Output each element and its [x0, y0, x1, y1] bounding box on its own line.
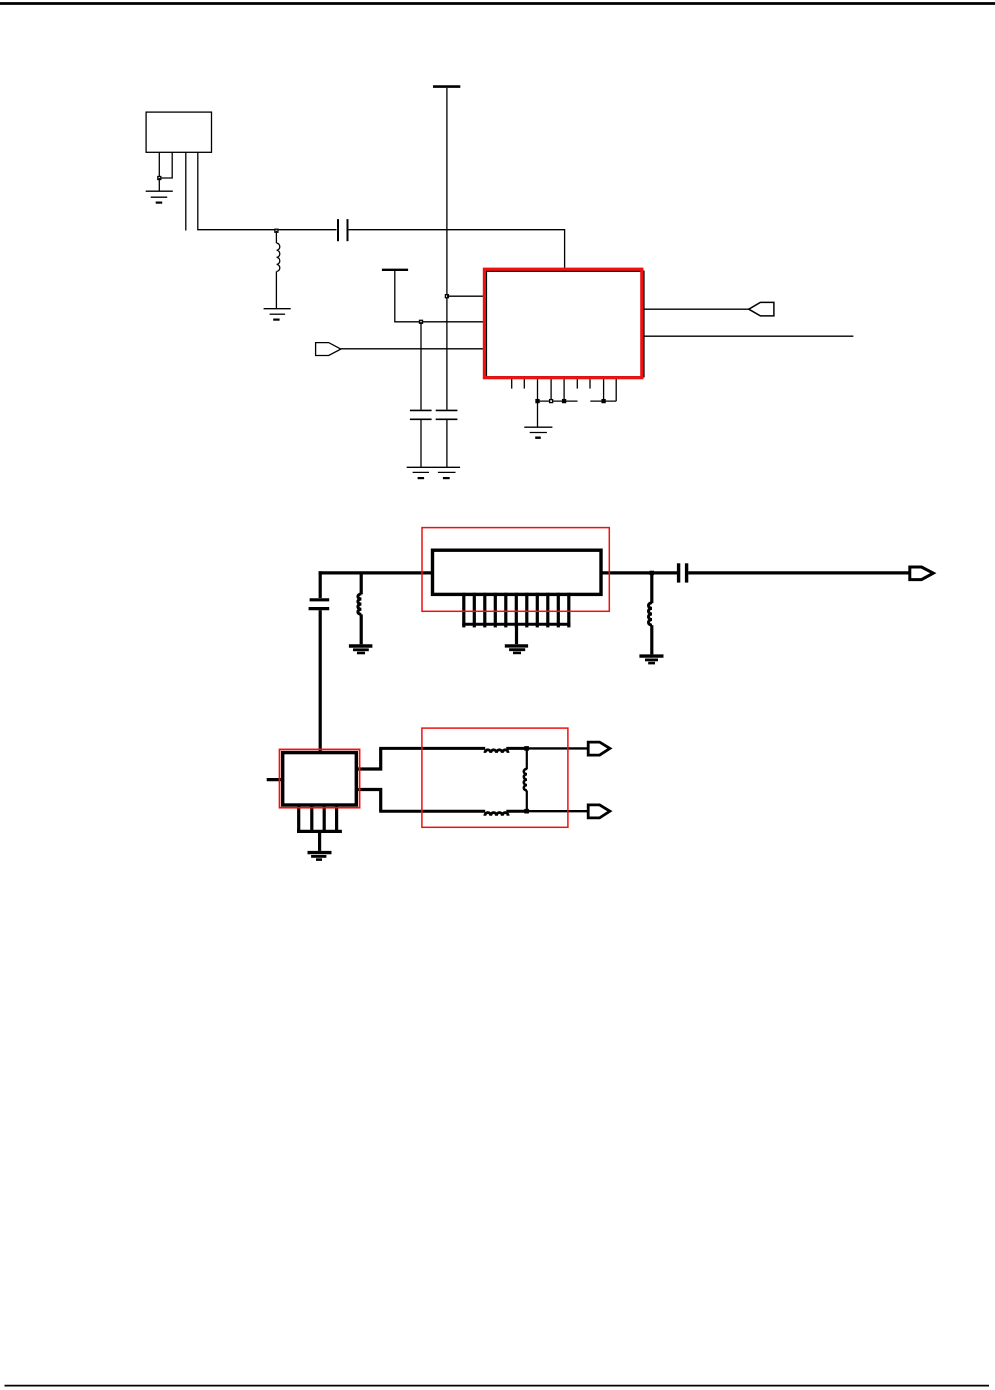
wire ground stem U1	[537, 401, 539, 427]
comb: filter FL1 bottom pins	[462, 593, 570, 653]
node T2 net / C2 junction	[420, 320, 423, 323]
wire U1 bottom pin 6	[576, 376, 578, 389]
inductor L1	[276, 231, 279, 309]
wire balun bottom pin 1	[297, 805, 300, 831]
wire U1 bottom pin 4	[550, 376, 552, 401]
wire balun bottom pin 4	[335, 805, 338, 831]
wire junction down to C2	[420, 322, 422, 410]
wire balun right pin lower	[356, 790, 380, 812]
inductor L2	[358, 573, 361, 644]
wire U1 right pin to P2	[644, 308, 749, 310]
wire pin4 of J1 to main net	[198, 152, 337, 229]
inductor L5 (inline, lower)	[485, 813, 508, 816]
wire lower diff line	[379, 810, 485, 813]
ground G3	[413, 472, 429, 478]
wire upper diff line	[379, 747, 485, 750]
IC U1 body	[486, 271, 644, 377]
wire P1 to U1 left pin 3	[341, 348, 486, 350]
footer rule	[5, 1385, 990, 1387]
wire ground bus right segment	[590, 400, 616, 402]
inductor L6 (shunt between lines)	[524, 748, 527, 811]
annotation box (red) around balun T1	[280, 749, 360, 807]
wire U1 bottom pin 1	[511, 376, 513, 389]
power rail T2	[382, 269, 408, 271]
wire U1 bottom pin 9	[615, 376, 617, 401]
wire U1 bottom pin 3	[537, 376, 539, 401]
top page border rule	[0, 2, 995, 5]
capacitor C4 (series in vertical branch)	[309, 600, 330, 609]
node junction at L3	[650, 571, 654, 575]
wire balun bottom pin 3	[323, 805, 326, 831]
wire C1 right plate to U1 top pin	[349, 230, 565, 272]
port P5	[588, 805, 610, 818]
connector J1 (top-left box)	[146, 112, 211, 152]
wire pin2 of J1	[159, 152, 172, 178]
inductor L3	[649, 573, 653, 655]
wire corner down from main net	[319, 571, 322, 598]
wire U1 bottom pin 8	[603, 376, 605, 401]
wire U1 bottom pin 7	[589, 376, 591, 389]
wire stub left of balun	[267, 778, 283, 781]
wire FL1 ground bus	[462, 623, 570, 626]
annotation box (red) around FL1	[422, 528, 609, 612]
wire ground stem	[158, 178, 160, 191]
node T1 net / U1 pin junction	[445, 295, 448, 298]
inductor L4 (inline, upper)	[485, 750, 508, 753]
capacitor C5 (series)	[679, 563, 687, 582]
ground G9	[308, 853, 332, 860]
node bus junction pin4 (open)	[550, 400, 553, 403]
wire main RF net left segment	[319, 571, 433, 574]
wire U1 bottom pin 5	[563, 376, 565, 401]
wire to U1 left pin 1	[447, 295, 486, 297]
wire ground bus left segment	[538, 400, 578, 402]
node bus junction pin3	[536, 400, 539, 403]
node pin1-pin2 junction	[158, 177, 161, 180]
wire C4 down to T1 balun	[319, 610, 322, 752]
ground G2	[264, 309, 291, 320]
power rail T1	[433, 85, 460, 88]
wire C3 bottom to ground bus	[446, 419, 448, 467]
node main net / L1 junction	[275, 229, 278, 232]
wire C2 bottom to ground bus	[420, 419, 422, 467]
wire balun ground bus	[297, 830, 342, 833]
wire balun ground stem	[318, 831, 321, 851]
node bus junction pin8	[602, 400, 605, 403]
port P2 (output, left-pointing)	[749, 302, 774, 316]
capacitor C3	[436, 410, 458, 419]
ground G1	[146, 191, 173, 202]
ground bus under C2/C3	[407, 466, 460, 468]
wire T1 down to C3	[446, 88, 448, 410]
wire U1 right pin 2 (open net)	[644, 335, 854, 337]
ground G7	[639, 656, 663, 663]
port P3 (antenna out)	[910, 567, 934, 580]
node bus junction pin5	[563, 400, 566, 403]
port P4	[588, 742, 610, 755]
annotation box (red) around U1	[484, 269, 641, 378]
wire balun right pin upper	[356, 748, 380, 769]
wire junction to port P4	[527, 747, 589, 749]
port P1 (input)	[316, 343, 341, 356]
wire pin1 of J1	[158, 152, 160, 178]
wire junction to port P5	[527, 810, 589, 812]
node junction lower	[524, 809, 529, 814]
wire balun bottom pin 2	[310, 805, 313, 831]
ground G5	[524, 427, 552, 438]
wire FL1 output to junction and C5	[601, 571, 677, 574]
wire U1 bottom pin 2	[523, 376, 525, 389]
annotation box (red) around matching network	[422, 728, 568, 827]
wire FL1 ground stem	[515, 624, 518, 644]
node junction upper	[524, 746, 529, 751]
wire pin3 of J1 (dangling)	[185, 152, 187, 230]
wire T2 to U1 left pin 2	[395, 271, 486, 322]
wire C5 to port P3	[688, 571, 910, 574]
capacitor C2	[410, 410, 432, 419]
filter FL1 body	[433, 550, 602, 594]
capacitor C1 (series, on net to U1)	[338, 219, 348, 241]
ground G8	[505, 646, 528, 653]
ground G6	[349, 646, 373, 653]
balun T1 body	[283, 753, 357, 805]
ground G4	[438, 472, 456, 478]
